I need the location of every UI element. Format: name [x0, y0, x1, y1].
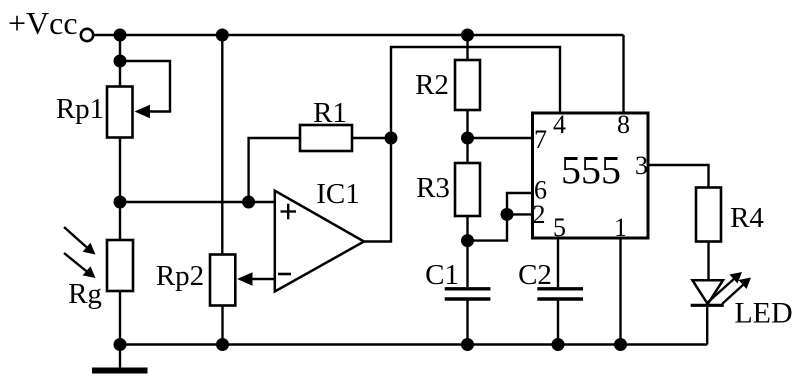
junction Vcc-Rp2	[216, 29, 229, 42]
svg-text:Rp2: Rp2	[156, 260, 204, 292]
capacitor C1	[425, 241, 490, 345]
wire Vcc to Rp1 top	[119, 35, 121, 87]
wire R3 bottom	[466, 216, 468, 241]
svg-text:5: 5	[553, 213, 566, 242]
svg-text:R4: R4	[730, 202, 764, 234]
svg-text:4: 4	[553, 110, 566, 139]
junction ground node	[114, 338, 127, 351]
wire Rp1 bottom to node A	[119, 138, 121, 203]
svg-text:2: 2	[533, 200, 546, 229]
svg-text:C1: C1	[425, 259, 459, 291]
svg-text:IC1: IC1	[316, 178, 360, 210]
svg-text:8: 8	[617, 110, 630, 139]
svg-text:R3: R3	[416, 172, 450, 204]
junction + input / R1 left	[242, 196, 255, 209]
wire 555 pin 1 to ground rail	[619, 238, 621, 345]
junction pin2-pin6	[501, 208, 514, 221]
op-amp IC1	[275, 178, 364, 292]
wire link to pins 2 and 6	[468, 193, 533, 241]
junction C1-ground	[461, 338, 474, 351]
wire Vcc rail to 555 pin 8	[622, 35, 624, 113]
photoresistor Rg	[64, 227, 133, 310]
svg-text:+Vcc: +Vcc	[8, 5, 78, 41]
junction node A	[114, 196, 127, 209]
svg-text:555: 555	[561, 148, 621, 193]
svg-text:Rg: Rg	[68, 278, 102, 310]
wire output to 555 pin 4	[391, 47, 560, 138]
svg-text:LED: LED	[734, 297, 792, 330]
svg-text:7: 7	[534, 125, 547, 154]
wire op-amp output	[364, 138, 391, 242]
junction R2-R3-pin7	[461, 132, 474, 145]
LED	[691, 272, 793, 330]
resistor R3	[416, 163, 480, 216]
wire Rp2 bottom	[221, 306, 223, 345]
potentiometer Rp1	[56, 61, 170, 138]
wire R4 to LED	[707, 242, 709, 282]
svg-text:R1: R1	[313, 97, 347, 129]
wire Vcc to Rp2 top	[221, 35, 223, 255]
junction Vcc-R2	[461, 29, 474, 42]
ground	[92, 345, 148, 374]
wire Rg bottom to ground node	[119, 291, 121, 345]
junction C2-ground	[552, 338, 565, 351]
capacitor C2	[518, 238, 583, 345]
svg-text:1: 1	[614, 213, 627, 242]
wire LED to ground rail	[706, 305, 708, 344]
junction Vcc-Rp1	[114, 29, 127, 42]
wire bottom rail	[120, 343, 707, 345]
svg-text:C2: C2	[518, 259, 552, 291]
IC 555	[533, 110, 649, 242]
resistor R1	[300, 97, 352, 151]
svg-text:R2: R2	[415, 69, 449, 101]
junction R1-output-pin4	[385, 132, 398, 145]
junction Rp1 wiper tap	[114, 55, 127, 68]
junction pin1-ground	[614, 338, 627, 351]
wire node A to Rg top	[119, 202, 121, 240]
wire R2 bottom to pin 7 node	[466, 110, 468, 163]
wire R1 left branch	[249, 138, 300, 202]
wire R1 right	[352, 137, 391, 139]
power terminal +Vcc	[8, 5, 93, 41]
wire pin 7	[468, 137, 533, 139]
wire 555 pin 3 to R4	[648, 165, 709, 188]
resistor R4	[696, 188, 764, 242]
potentiometer Rp2	[156, 255, 275, 306]
svg-text:Rp1: Rp1	[56, 93, 104, 125]
svg-text:3: 3	[635, 151, 648, 180]
wire Vcc top rail	[94, 34, 624, 36]
junction Rp2-ground rail	[216, 338, 229, 351]
resistor R2	[415, 60, 480, 110]
junction R3-C1-pins 2/6	[461, 234, 474, 247]
wire node A rail to op-amp + input	[120, 201, 275, 203]
wire Vcc to R2 top	[466, 35, 468, 60]
